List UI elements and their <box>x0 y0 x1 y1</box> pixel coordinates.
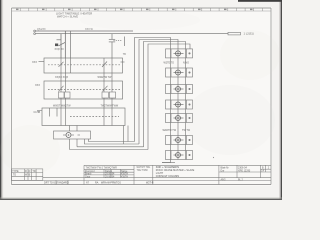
wire drop B <box>70 31 72 58</box>
bus line L1 <box>36 30 134 32</box>
svg-text:XX|XX XX|X: XX|XX XX|X <box>55 76 68 79</box>
wire C1HB right-edge drop 2 <box>127 126 129 142</box>
lamp box T3 <box>166 85 193 94</box>
svg-text:TW2 TWW: TW2 TWW <box>137 170 149 172</box>
svg-text:WATCH + SLAVE: WATCH + SLAVE <box>57 15 78 19</box>
lamp box T1 <box>166 49 193 58</box>
wire 65 C1T to C1HB <box>64 98 66 108</box>
bus line L2 <box>36 33 229 35</box>
svg-text:W2TWT TWL: W2TWT TWL <box>137 167 152 169</box>
wire nest feed 1 <box>135 38 171 142</box>
nested routing bus: verticals right-middle <box>70 38 191 150</box>
wire stub with ticks <box>123 37 125 47</box>
wire 112 through C1T <box>111 73 113 92</box>
wire contact K to K1TB <box>111 42 113 58</box>
svg-text:WRA-W-PRWTOS: WRA-W-PRWTOS <box>101 182 121 185</box>
svg-text:QS1/XX: QS1/XX <box>37 28 46 31</box>
wire terminal column right <box>185 49 187 160</box>
wire 112 through K1TB <box>111 58 113 73</box>
wire M1 down left <box>69 139 71 150</box>
frame bottom border <box>12 184 272 186</box>
svg-text:CONSULT COLUMN: CONSULT COLUMN <box>156 175 179 178</box>
wires C1HB right edge down <box>124 126 129 145</box>
svg-text:W2TE TO: W2TE TO <box>164 62 175 65</box>
wires C1T to C1HB <box>61 98 112 108</box>
wire drop A2 <box>64 31 66 58</box>
frame left border <box>11 8 13 185</box>
terminal squares bottom C1T <box>59 92 116 98</box>
wire nest feed 3 <box>144 42 186 148</box>
svg-text:29.06.94: 29.06.94 <box>105 175 115 178</box>
frame top ruler line inner <box>12 10 272 12</box>
svg-text:RA: RA <box>95 182 99 185</box>
wire 104 through C1T <box>103 73 105 92</box>
wire nest feed 4 <box>148 44 190 150</box>
wire nest bottom return 1 <box>89 139 135 142</box>
wire below last box <box>162 160 171 163</box>
scan dark edge top-right <box>238 0 282 2</box>
svg-text:BL 2: BL 2 <box>238 178 243 181</box>
lamp box T7 <box>166 151 193 160</box>
svg-text:N NO: N NO <box>183 62 189 65</box>
svg-text:XXX W: XXX W <box>85 28 93 31</box>
revision table <box>12 169 43 181</box>
contact K bar upper <box>109 38 115 40</box>
svg-text:XXX: XXX <box>32 61 37 64</box>
terminal column verticals <box>162 49 186 163</box>
scan dark edge bottom <box>0 199 282 200</box>
wire 65 through C1T <box>64 73 66 92</box>
svg-text:TD: TD <box>13 174 16 177</box>
contact K (NO) under bus <box>109 34 125 58</box>
node QS1 terminal dots <box>34 30 36 34</box>
title block verticals <box>83 165 85 184</box>
stray mark <box>213 157 214 158</box>
wire 112 C1T to C1HB <box>111 98 113 108</box>
wire nest bottom return 4 <box>70 149 149 151</box>
svg-text:TW2TWW TWW: TW2TWW TWW <box>101 105 119 108</box>
wire drop with contact S1 <box>57 31 66 58</box>
wire bus to contact K <box>111 34 113 39</box>
wire 112 through C1HB <box>111 108 113 126</box>
motor box M1 <box>54 131 91 139</box>
bus L2 end marker <box>228 32 241 35</box>
svg-text:Dur: Dur <box>221 170 225 173</box>
scan dark edge left <box>0 0 1 200</box>
scan mottling <box>0 10 280 175</box>
title block outline top <box>84 164 271 166</box>
wire M1 down right <box>76 139 78 147</box>
wire 61 through C1T <box>60 73 62 92</box>
contact blade left in C1T <box>59 86 64 92</box>
paper background <box>0 0 282 200</box>
svg-text:DRT TO-5 STANDARD: DRT TO-5 STANDARD <box>44 182 69 185</box>
wire 61 through K1TB <box>60 58 62 73</box>
svg-text:WARTW TW: WARTW TW <box>163 129 177 132</box>
contact blade right in K1TB <box>102 62 107 68</box>
svg-text:XRE 12293: XRE 12293 <box>238 170 251 173</box>
wire 104 through K1TB <box>103 58 105 73</box>
wire 70 through K1TB <box>70 58 72 73</box>
svg-text:TB: TB <box>123 54 126 56</box>
contact blade left in K1TB <box>59 62 64 67</box>
wire C1HB to M1 right <box>76 126 78 132</box>
scan dark edge right <box>281 0 282 200</box>
wire terminal column middle <box>177 49 179 160</box>
wire nest feed 2 <box>139 40 178 145</box>
title block inner rows <box>84 168 134 170</box>
wire 61 C1T to C1HB <box>60 98 62 108</box>
lamp box T2 <box>166 68 193 77</box>
wires through M1 <box>70 126 78 150</box>
svg-text:XXX: XXX <box>35 84 40 87</box>
contact label blob <box>55 44 58 47</box>
wires through C1HB <box>61 108 112 126</box>
wire 61 through C1HB <box>60 108 62 126</box>
ruler zone number smudges <box>16 9 253 10</box>
top ruler tick marks <box>20 8 262 11</box>
contact K bar lower <box>109 41 115 43</box>
svg-text:XX|X XX: XX|X XX <box>55 48 65 51</box>
wire C1HB right-edge drop 1 <box>123 126 125 145</box>
wires through C1T <box>59 73 113 92</box>
wire nest bottom return 3 <box>77 146 144 148</box>
wire nest bottom return 2 <box>85 139 140 144</box>
frame right border <box>270 8 272 185</box>
lamp box T5 <box>166 114 193 123</box>
relay box C1HB <box>42 108 125 126</box>
relay box K1TB <box>39 58 123 73</box>
svg-text:Gepr: Gepr <box>85 175 91 178</box>
wires through K1TB <box>59 58 125 73</box>
wire 104 through C1HB <box>103 108 105 126</box>
svg-text:KWTH: KWTH <box>121 175 128 178</box>
lamp box T4 <box>166 100 193 109</box>
svg-text:W2T-R: W2T-R <box>146 182 154 185</box>
contact blade right in C1T <box>103 86 108 92</box>
contact S1 left tick <box>57 39 62 41</box>
svg-text:WW2TW TW: WW2TW TW <box>98 76 113 79</box>
linkage dash from contact K <box>114 39 122 41</box>
contact blade S1 <box>59 42 66 46</box>
label stub C1HB <box>37 109 42 111</box>
frame top ruler line outer <box>12 7 272 9</box>
lamp box T6 <box>166 136 193 145</box>
wire drop A1 <box>60 34 62 58</box>
wire C1HB to M1 left <box>69 126 71 132</box>
svg-text:C1HB: C1HB <box>34 111 41 114</box>
svg-text:ABG: ABG <box>221 178 226 181</box>
wire 65 through C1HB <box>64 108 66 126</box>
wire 65 through K1TB <box>64 58 66 73</box>
relay box C1T <box>44 81 123 99</box>
wire 104 C1T to C1HB <box>103 98 105 108</box>
svg-text:WW2T WW2TW: WW2T WW2TW <box>53 105 71 108</box>
wire terminal column left <box>170 49 172 160</box>
